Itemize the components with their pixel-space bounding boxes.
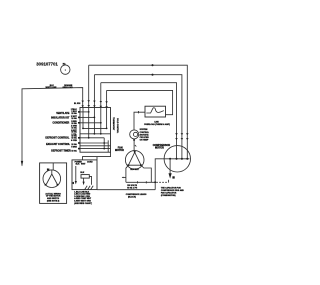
wire L1 top loop [89, 64, 188, 158]
thermostat circle [130, 130, 139, 139]
bus 4 drop [105, 90, 108, 108]
small gauge sub labels [71, 109, 78, 152]
svg-text:MOTOR: MOTOR [155, 147, 164, 150]
svg-text:WHITE LINE: WHITE LINE [46, 87, 58, 89]
svg-text:CW OPEN: CW OPEN [140, 137, 150, 139]
svg-text:(SEE NOTE 3): (SEE NOTE 3) [47, 200, 60, 202]
plug body [81, 175, 89, 179]
svg-text:(SEE WIRE CHART): (SEE WIRE CHART) [74, 202, 92, 205]
svg-text:7 BRN: 7 BRN [71, 147, 77, 149]
terminal block interior columns [83, 108, 108, 153]
svg-text:60 HZ 1 PH: 60 HZ 1 PH [127, 188, 138, 190]
connector ticks on compressor leads [175, 133, 188, 140]
svg-text:VENTILATE: VENTILATE [56, 112, 70, 115]
svg-text:THERMOSTAT: THERMOSTAT [112, 117, 115, 131]
dashed lead to compressor case [156, 180, 168, 183]
wire from overload to thermostat [134, 111, 145, 130]
svg-text:1: 1 [65, 68, 67, 72]
svg-text:6 ORN: 6 ORN [71, 140, 77, 142]
svg-text:BLK: BLK [80, 172, 85, 174]
svg-text:MOTOR: MOTOR [115, 149, 124, 152]
power cord labels [75, 162, 94, 166]
label ORANGE GRN above wire A [63, 84, 74, 89]
svg-text:(ROTATE): (ROTATE) [140, 133, 149, 136]
svg-text:309107701: 309107701 [36, 62, 58, 67]
svg-text:ON TEMP: ON TEMP [140, 140, 149, 142]
wire A black line cord run with down arrow [21, 88, 84, 167]
cold control text [140, 129, 150, 142]
wire L4 to overload [107, 90, 173, 114]
power cord box [72, 160, 97, 190]
compressor start lead [155, 159, 162, 183]
bus 3 drop [100, 83, 103, 108]
svg-text:18 GA: 18 GA [71, 122, 77, 125]
fan motor label [115, 147, 124, 152]
svg-text:DEFROST CONTROL: DEFROST CONTROL [45, 136, 69, 139]
svg-text:CORD: CORD [87, 162, 93, 164]
svg-text:COLD CONTROL: COLD CONTROL [116, 118, 118, 134]
fan motor left lead to capacitor [122, 165, 129, 182]
bus 1 drop [87, 65, 90, 107]
overload relay label [144, 122, 170, 127]
wire L2 [94, 74, 181, 159]
svg-text:BLU BLK: BLU BLK [130, 169, 139, 171]
svg-text:INSULATOR KIT: INSULATOR KIT [51, 117, 70, 120]
svg-text:(BLACK): (BLACK) [128, 195, 136, 198]
terminal wire labels left of block [45, 112, 71, 152]
wire L3 [101, 83, 177, 159]
junction drop to neutral run [154, 182, 156, 189]
switch motor circle [43, 170, 61, 188]
fan and run capacitor label [161, 186, 185, 197]
svg-text:BL WH: BL WH [74, 103, 81, 105]
terminal ticks on left edge of block [78, 111, 80, 149]
terminal block box [80, 108, 111, 153]
wiring legend list [74, 191, 92, 205]
revision badge circle [61, 62, 70, 74]
node below thermostat [133, 139, 135, 141]
capacitor rating label [127, 185, 138, 189]
plug hot arrow [83, 178, 85, 185]
svg-text:18 GA: 18 GA [71, 137, 77, 140]
interconnect arrow to switch box [71, 182, 74, 184]
svg-text:EXHAUST CONTROL: EXHAUST CONTROL [46, 143, 70, 146]
svg-text:DEFROST TIMER: DEFROST TIMER [51, 149, 71, 152]
compressor caption [126, 193, 147, 198]
fan motor switch box [40, 163, 67, 204]
junction node at capacitor [154, 181, 156, 183]
overload relay box [145, 106, 166, 117]
neutral stub from block bottom to power cord box [83, 152, 111, 160]
compressor motor label [153, 144, 171, 149]
bus 2 drop [93, 75, 96, 108]
svg-text:OVERLOAD (THERM & AMP): OVERLOAD (THERM & AMP) [144, 123, 170, 126]
fan motor right lead [141, 165, 151, 182]
svg-text:18 GA: 18 GA [71, 143, 77, 146]
compressor circle [162, 146, 190, 172]
ground terminal square [172, 176, 174, 178]
svg-text:GRN LOAD: GRN LOAD [63, 86, 74, 89]
svg-text:18 GA: 18 GA [71, 117, 77, 120]
terminal block interior rows with junctions [80, 111, 111, 150]
compressor case ground arrow [169, 159, 172, 179]
fan motor circle [125, 151, 144, 170]
svg-text:18 GA: 18 GA [71, 149, 77, 152]
wire power box right edge riser [96, 157, 98, 160]
svg-text:(COMBINATION): (COMBINATION) [161, 194, 176, 197]
cord left arrow [75, 166, 77, 184]
svg-text:CONDITIONER: CONDITIONER [53, 122, 70, 125]
wire thermostat to fan motor [134, 139, 136, 151]
switch motor lead [52, 163, 54, 171]
label BLK WHITE above wire A [46, 85, 58, 89]
svg-text:BLK WHT: BLK WHT [76, 164, 87, 166]
ground hatching [85, 176, 94, 189]
neutral run from power cord [97, 189, 155, 191]
svg-text:18 GA: 18 GA [71, 112, 77, 115]
capacitor wire row [126, 181, 155, 183]
switch box caption [45, 192, 61, 202]
